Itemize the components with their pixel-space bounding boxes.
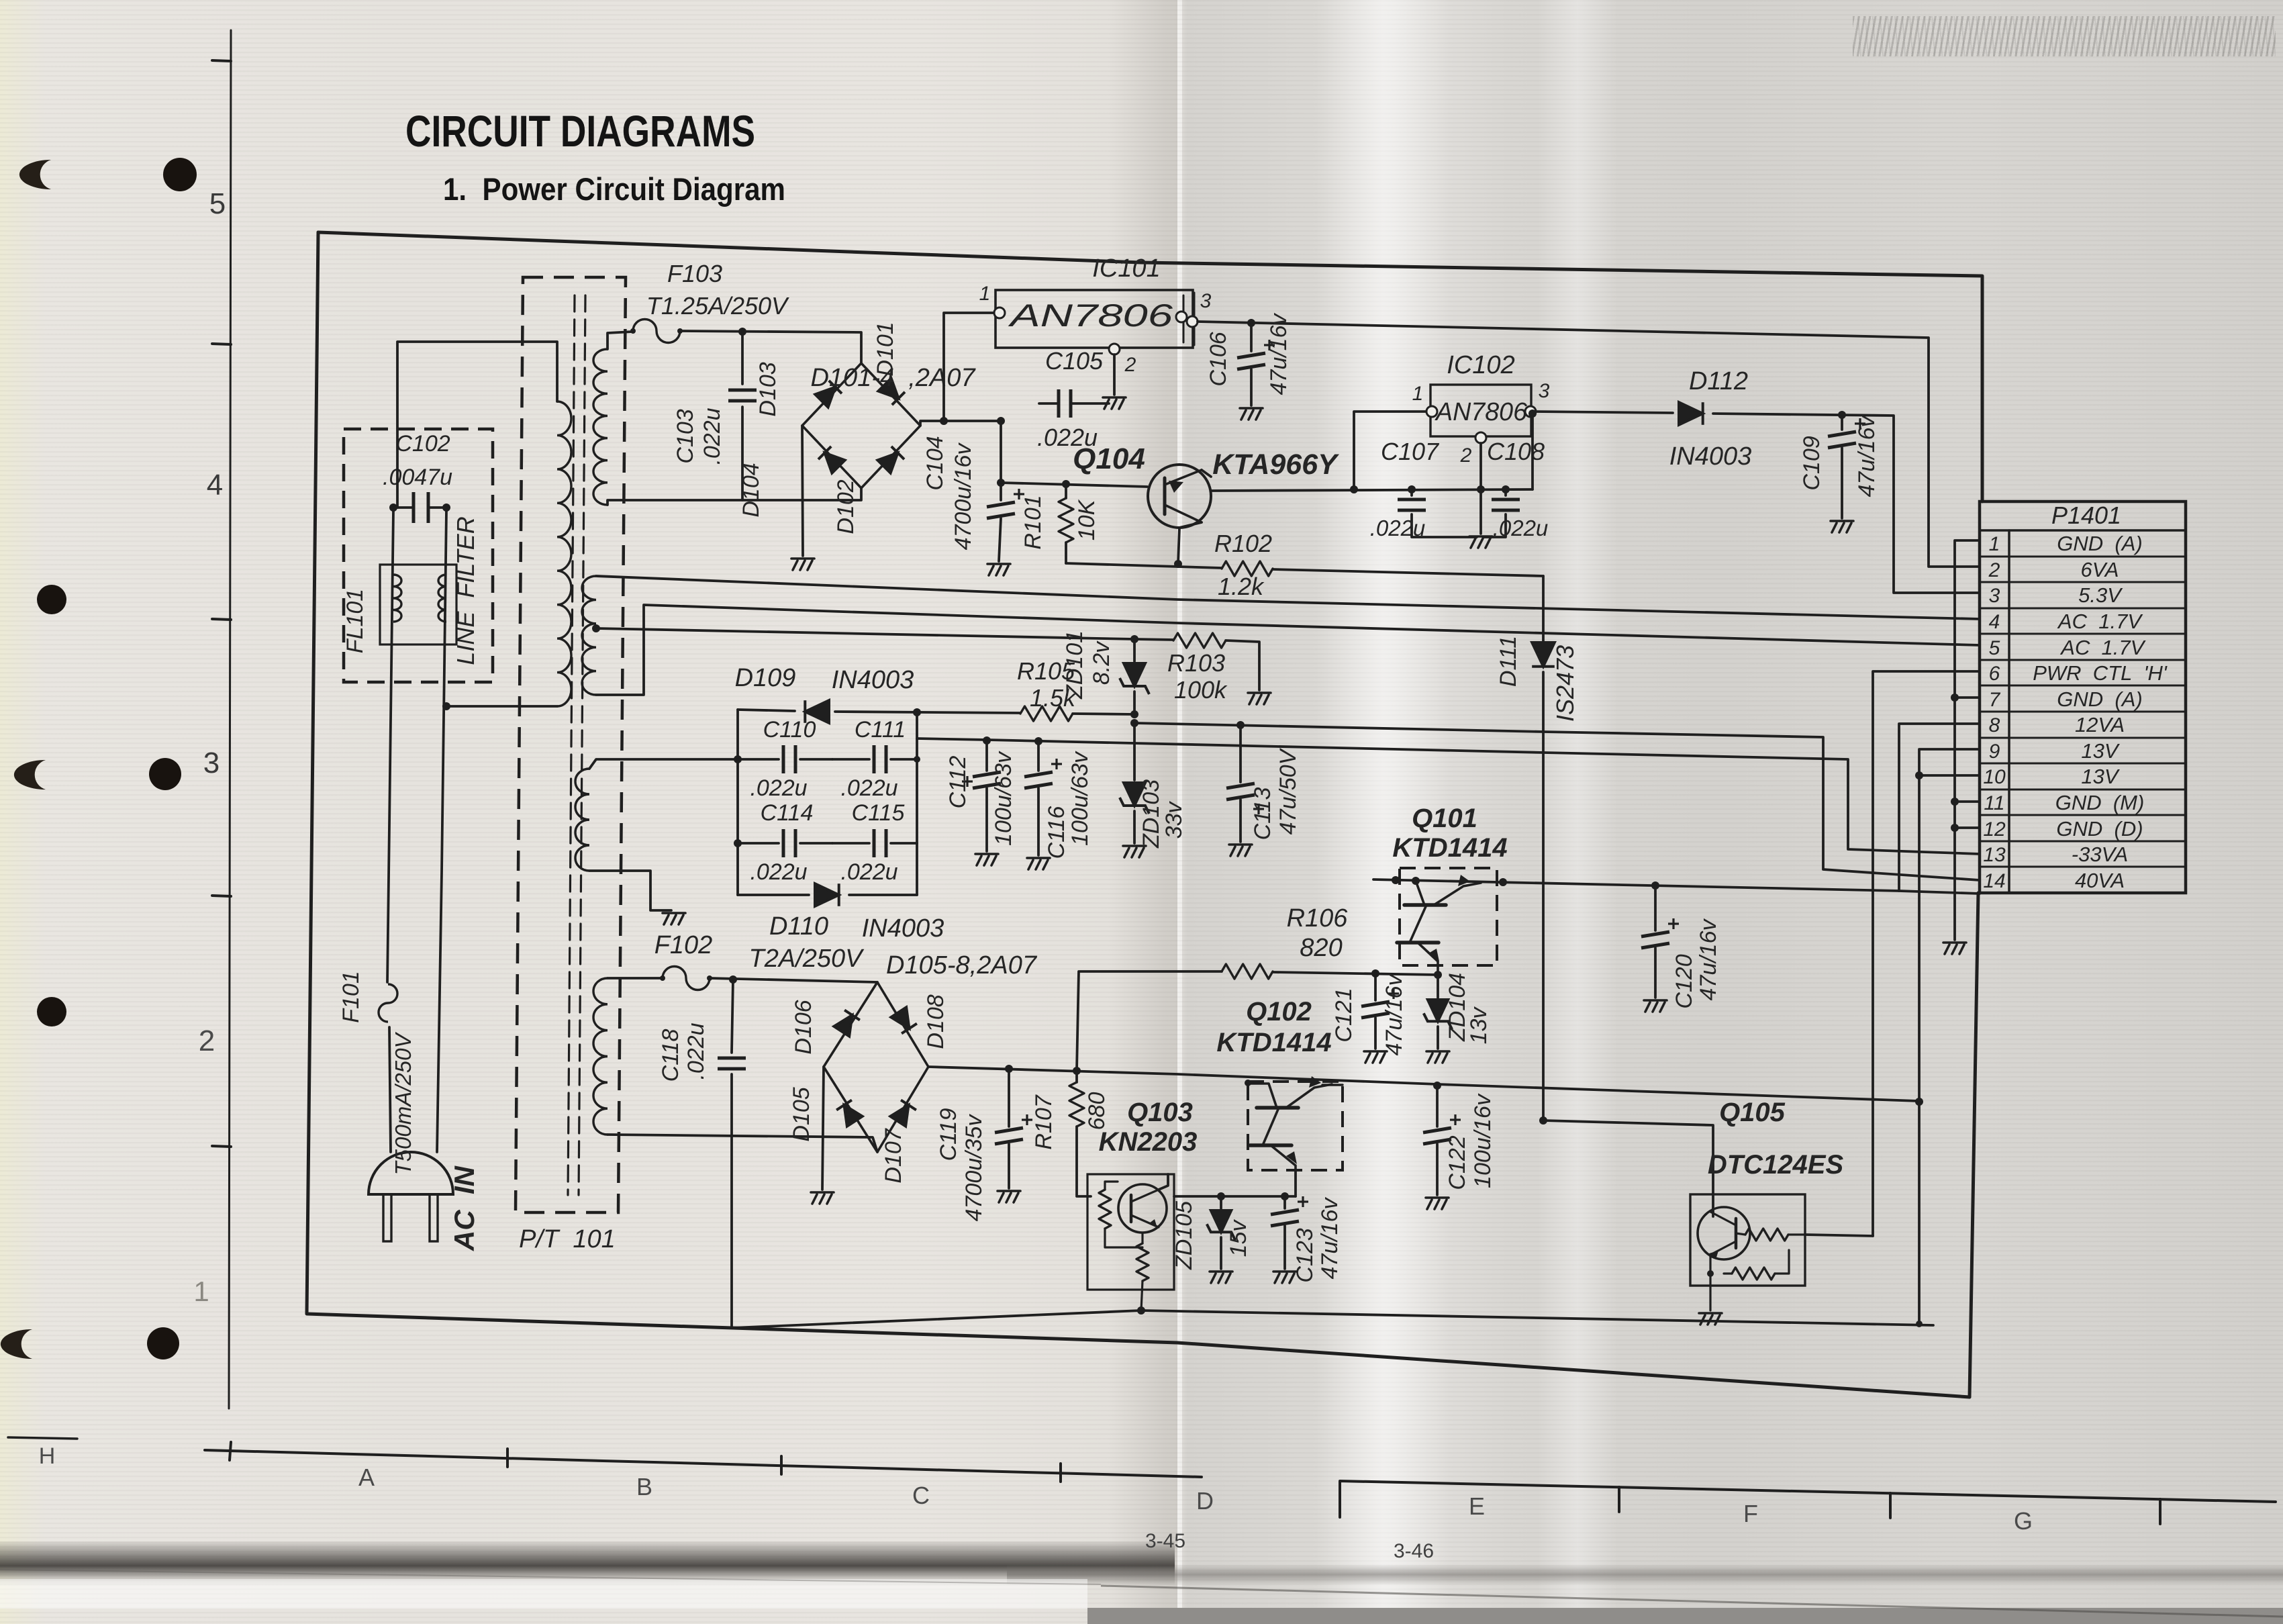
P1401 row line 5	[1980, 659, 2186, 661]
P1401 row line 11	[1980, 814, 2186, 816]
node ZD105	[1217, 1192, 1225, 1200]
bottom ruler tick C	[780, 1456, 783, 1474]
node -33VA branch	[1130, 719, 1138, 727]
node R107 top	[1073, 1067, 1081, 1075]
ground C123	[1273, 1272, 1296, 1283]
bottom ruler tick G	[1889, 1493, 1892, 1518]
wire AC right prong up	[437, 510, 446, 1152]
node 13V rail joint	[1915, 1098, 1923, 1106]
line filter block	[380, 565, 456, 644]
wire Q105 emitter to ground	[1709, 1255, 1711, 1310]
capacitor C111	[832, 758, 869, 761]
zener ZD105 15v	[1220, 1196, 1222, 1208]
IC101 pin3 lead bracket	[1183, 295, 1185, 342]
wire AC left prong to fuse F101	[389, 1027, 391, 1152]
diode D112	[1679, 402, 1703, 425]
wire bridge right vertex to C104 node	[920, 421, 1001, 426]
secondary winding W5 main	[593, 978, 608, 1135]
transistor Q105 circle	[1698, 1207, 1750, 1259]
capacitor C102	[393, 506, 414, 509]
diode D105 lower-left	[836, 1100, 863, 1127]
diode D106 upper-left	[834, 1010, 860, 1037]
resistor R105	[1020, 706, 1073, 721]
wire F101 up to C102 node	[387, 510, 393, 982]
cap network left rail	[736, 710, 739, 895]
capacitor C123 47u	[1283, 1196, 1286, 1208]
wire W5 top to fuse F102	[608, 977, 663, 980]
node Q104 base branch	[997, 479, 1005, 487]
node gnd bus pin7	[1951, 694, 1959, 702]
capacitor C112 100u	[985, 741, 988, 771]
P1401 row line 7	[1980, 711, 2186, 713]
node R101 top	[1062, 480, 1070, 488]
capacitor C122 100u	[1436, 1086, 1439, 1127]
P1401 pin number column line	[2008, 530, 2010, 893]
wire Q104 emitter down	[1178, 522, 1202, 564]
ground C106	[1240, 408, 1263, 420]
capacitor C105	[1039, 402, 1059, 405]
Q102 darlington symbol	[1248, 1084, 1277, 1108]
bottom ruler tick F	[1618, 1487, 1620, 1512]
wire ZD105 rail	[1174, 1195, 1296, 1198]
IC101 pin3 circle	[1176, 312, 1187, 322]
diode D101 upper-right	[878, 378, 905, 405]
capacitor C118	[732, 980, 733, 1053]
ground C121	[1364, 1051, 1387, 1063]
ground IC102 pin2	[1469, 536, 1492, 548]
node IC101 input branch	[940, 417, 948, 425]
ground R103	[1248, 693, 1271, 704]
wire bridge left vertex to ground	[802, 426, 803, 556]
connector P1401 outer box	[1980, 501, 2186, 893]
P1401 row line 13	[1980, 866, 2186, 868]
node Q102 base rail	[1245, 1080, 1251, 1086]
node pin2 crossing emitter rail	[1477, 485, 1485, 493]
node W3 mid tap	[592, 624, 600, 632]
wire IC102 pin3 to D112	[1533, 412, 1673, 413]
diode D102 lower-right	[877, 446, 904, 473]
IC101 pin2 circle	[1109, 344, 1120, 354]
ruler tick y1335	[212, 896, 231, 896]
capacitor C121 47u	[1374, 973, 1377, 1000]
wire AC1.7V line to pin5	[596, 605, 1980, 695]
ground C109	[1831, 521, 1853, 532]
ground connector bus	[1943, 943, 1966, 954]
transistor Q105 DTC124ES box	[1690, 1194, 1805, 1286]
IC102 pin1 circle	[1426, 406, 1437, 417]
wire W2 top to fuse F103	[608, 332, 632, 349]
bottom ruler tick at margin	[230, 1442, 231, 1460]
wire Q102 collector down	[1294, 1170, 1297, 1196]
IC101 box	[995, 290, 1193, 348]
wire pin12 stub	[1955, 826, 1980, 829]
node C102 right	[442, 504, 450, 512]
wire W2 bottom to bridge bottom	[608, 488, 861, 505]
wire Q104 collector right	[1202, 470, 1211, 477]
capacitor C120 47u	[1654, 886, 1657, 930]
AC plug prong left	[383, 1194, 391, 1241]
P1401 row line 9	[1980, 763, 2186, 765]
zener ZD103 33v	[1133, 723, 1136, 780]
wire Q103 collector to ZD105 rail	[1159, 1174, 1168, 1190]
diode D104 lower-left	[818, 446, 845, 473]
wire emitter rail up to pin3 line	[1531, 414, 1534, 489]
capacitor C106	[1250, 323, 1253, 351]
node C103 top	[738, 328, 746, 336]
transistor Q103 KN2203 box	[1087, 1174, 1174, 1290]
wire D112 to C109 node and corner to pin3	[1713, 414, 1980, 593]
Q101 darlington symbol	[1416, 881, 1424, 905]
P1401 row line 2	[1980, 581, 2186, 583]
wire D111 vertical from R102	[1542, 576, 1545, 641]
wire Q102 emitter to rail	[1322, 1084, 1343, 1086]
node Q105 emitter	[1707, 1270, 1714, 1277]
node pin10	[1915, 771, 1923, 779]
zener ZD101 8.2v	[1133, 639, 1136, 661]
node Q104 emitter R102	[1174, 560, 1182, 568]
bridge rectifier D105-8 diamond	[824, 982, 928, 1152]
secondary winding W2 6V	[593, 349, 608, 505]
node gnd bus pin12	[1951, 824, 1959, 832]
Q103 emitter resistor	[1141, 1233, 1143, 1243]
ground C120	[1644, 1000, 1667, 1012]
connector ground bus	[1955, 540, 1980, 940]
IC102 pin3 circle	[1525, 406, 1536, 417]
wire D109 to R105	[835, 712, 1020, 713]
Q105 emitter resistor	[1732, 1268, 1775, 1280]
border right edge below connector	[1970, 893, 1978, 1397]
wire C102 node to primary top	[397, 342, 557, 508]
ground C113	[1229, 845, 1252, 856]
primary winding W1	[557, 401, 571, 706]
IC102 box	[1430, 385, 1531, 436]
capacitor C114	[738, 842, 779, 845]
bottom ruler tick end	[2159, 1499, 2161, 1524]
wire F103 to bridge top	[681, 331, 861, 363]
resistor R106	[1222, 964, 1273, 979]
node Q101 base a	[1392, 876, 1400, 884]
ground ZD105	[1210, 1272, 1232, 1283]
resistor R101	[1065, 484, 1067, 498]
wire IC102 pin1 branch	[1354, 412, 1428, 489]
punch hole crescent row5	[1, 1329, 32, 1359]
node C118 top	[729, 975, 737, 984]
IC102 pin2 circle	[1475, 432, 1486, 443]
transformer core line 1	[568, 295, 575, 1195]
secondary winding W4 33V	[575, 769, 589, 871]
secondary winding W3 AC1.7V	[582, 576, 596, 695]
transistor Q101 KTD1414 dashed box	[1400, 868, 1497, 965]
fuse F101	[379, 984, 397, 1022]
wire C120 rail into connector	[1899, 891, 1980, 894]
wire primary bottom to AC right wire	[446, 705, 557, 708]
punch hole crescent row3	[14, 760, 46, 790]
P1401 row line 8	[1980, 737, 2186, 739]
node left rail top tap	[734, 755, 742, 763]
node C110 C111 mid	[914, 756, 920, 763]
punch hole row5	[147, 1327, 179, 1359]
P1401 row line 4	[1980, 633, 2186, 635]
node C108 top	[1502, 485, 1510, 493]
schematic outer border	[318, 232, 1982, 501]
AC plug prong right	[430, 1194, 438, 1241]
ground bridge1	[791, 559, 814, 570]
diode D111 IS2473	[1532, 642, 1555, 667]
wire R101 bottom to R102	[1066, 563, 1222, 568]
ground C116	[1027, 858, 1050, 869]
capacitor C109	[1841, 415, 1843, 430]
wire to Q105 collector	[1543, 1120, 1713, 1216]
node pin3 5.3V	[1528, 410, 1537, 418]
node C109	[1838, 411, 1846, 419]
node D111 bottom	[1539, 1116, 1547, 1125]
wire Q105 base to PWR CTL	[1805, 1235, 1873, 1236]
wire AC1.7V line to pin4	[596, 576, 1980, 619]
node C116 top	[1034, 737, 1042, 745]
node ZD101 top	[1130, 635, 1138, 643]
wire Q104 base	[1001, 483, 1147, 487]
P1401 row line 12	[1980, 841, 2186, 843]
resistor R103 to ground	[1134, 639, 1173, 640]
fuse F103	[633, 320, 680, 343]
capacitor C104 4700u	[1000, 421, 1002, 500]
node ZD101 bottom	[1130, 710, 1138, 718]
H margin mark line	[8, 1437, 77, 1439]
wire IC102 pin2 down to ground	[1479, 443, 1482, 534]
fuse F102	[663, 967, 710, 990]
wire pin11 stub	[1955, 800, 1980, 803]
wire up to IC101 pin1	[944, 313, 993, 421]
node C112 top	[983, 736, 991, 745]
zener ZD104 13v	[1437, 975, 1439, 998]
node C102 left	[389, 504, 397, 512]
capacitor C116 100u	[1037, 741, 1040, 771]
resistor R102	[1222, 561, 1273, 576]
cap network right rail	[916, 712, 918, 895]
wire bottom rail 13V	[732, 1310, 1933, 1328]
wire bridge2 output rail	[928, 1067, 1918, 1101]
node ZD104 emitter junction	[1434, 971, 1442, 979]
capacitor C107	[1410, 489, 1413, 495]
ground ZD103	[1123, 846, 1146, 857]
node Q101 base b	[1412, 877, 1420, 885]
node C121	[1371, 969, 1379, 977]
Q105 base resistor	[1736, 1233, 1745, 1235]
ground C122	[1426, 1198, 1449, 1209]
node primary bottom	[442, 702, 450, 710]
node C123	[1281, 1192, 1289, 1200]
P1401 row line 1	[1980, 556, 2186, 558]
diode D110	[815, 883, 839, 906]
transformer P/T 101 dashed box	[516, 277, 626, 1212]
diode D107 lower-right	[890, 1100, 916, 1127]
line filter coil right	[438, 575, 446, 622]
resistor R107	[1075, 1071, 1078, 1082]
wire L6 to pin13	[917, 738, 1980, 854]
ground IC101 pin2	[1103, 397, 1126, 409]
node left rail mid tap	[734, 839, 742, 847]
capacitor C110	[738, 758, 779, 761]
ground C104	[987, 564, 1010, 575]
node 13V bottom joint	[1916, 1321, 1923, 1327]
P1401 row line 6	[1980, 685, 2186, 687]
wire D110 to right rail	[849, 894, 917, 896]
wire F102 to bridge2 top	[709, 978, 877, 982]
diode D103 upper-left	[815, 381, 842, 408]
wire D110 row	[738, 894, 809, 896]
transistor Q104 KTA966Y	[1148, 465, 1211, 528]
node Q101 emitter exit	[1499, 878, 1507, 886]
bottom ruler tick B	[506, 1449, 509, 1467]
left margin ruler line	[229, 30, 231, 1408]
P1401 header separator	[1980, 529, 2186, 532]
wire Q104 emitter rail	[1211, 489, 1533, 491]
transformer core line 2	[579, 295, 585, 1195]
ruler tick y923	[212, 619, 231, 620]
wire IC101 pin2 to ground	[1113, 354, 1116, 395]
capacitor C113 47u/50V	[1239, 725, 1242, 782]
node C104 top	[997, 417, 1005, 425]
node C120	[1651, 881, 1659, 890]
bottom ruler line left page	[205, 1450, 1202, 1477]
wire -33VA line L5	[1134, 723, 1980, 880]
ground C119	[998, 1191, 1020, 1202]
wire W4 top lead	[589, 759, 738, 769]
node C107 top	[1408, 485, 1416, 493]
wire 13V vertical to pins 9 10	[1919, 749, 1980, 1324]
bottom ruler tick D	[1059, 1464, 1062, 1482]
IC101 pin1 circle	[994, 307, 1005, 318]
node C119	[1005, 1065, 1013, 1073]
FL101 dashed box	[344, 429, 493, 682]
ruler tick y1708	[212, 1146, 231, 1147]
node C106	[1247, 319, 1255, 327]
capacitor C103	[741, 332, 744, 384]
P1401 row line 10	[1980, 789, 2186, 791]
bottom ruler line right page	[1340, 1481, 2276, 1517]
ruler tick y513	[212, 344, 231, 344]
capacitor C119 4700u	[1008, 1069, 1010, 1127]
wire Q101 base rail 12VA	[1373, 724, 1980, 891]
P1401 row line 3	[1980, 608, 2186, 610]
punch hole crescent row1	[19, 160, 51, 189]
punch hole row3	[149, 758, 181, 790]
node IC102 pin1 branch	[1350, 485, 1358, 493]
wire R106 rail from R107 junction	[1077, 971, 1222, 1071]
node C113 top	[1236, 721, 1245, 729]
wire 6VA from IC101 pin3	[1198, 322, 1980, 567]
diode D108 upper-right	[891, 1007, 917, 1033]
wire D109 line	[738, 710, 795, 711]
punch hole row2	[37, 585, 66, 614]
AC IN plug	[369, 1152, 453, 1194]
wire pin10 stub	[1919, 774, 1980, 777]
node gnd bus pin11	[1951, 798, 1959, 806]
ground W4	[663, 913, 685, 924]
line filter coil left	[393, 575, 401, 622]
punch hole row1	[163, 158, 197, 191]
ruler tick y92	[212, 60, 231, 61]
ground bridge2	[811, 1192, 834, 1204]
ground C112	[975, 854, 998, 865]
punch hole row4	[37, 997, 66, 1026]
bridge rectifier D101-4 diamond	[802, 363, 920, 488]
ground Q105	[1699, 1313, 1722, 1325]
ground ZD104	[1426, 1051, 1449, 1063]
node Q103 bottom	[1137, 1306, 1145, 1315]
wire bridge2 left vertex to ground	[822, 1067, 824, 1190]
wire mid tap to ZD101 node	[596, 628, 1134, 639]
node cap right rail top	[913, 708, 921, 716]
capacitor C108	[1504, 489, 1507, 495]
transistor Q103 circle	[1118, 1184, 1167, 1233]
node C122	[1433, 1082, 1441, 1090]
wire W5 bottom to bridge2	[608, 1135, 877, 1152]
wire PWR CTL vertical pin6	[1873, 671, 1980, 1236]
wire pin7 stub	[1955, 696, 1980, 699]
Q103 base resistor	[1099, 1190, 1111, 1229]
transistor Q102 KTD1414 dashed box	[1248, 1082, 1343, 1170]
capacitor C115	[832, 842, 869, 845]
wire W4 bottom to ground	[589, 871, 671, 910]
diode D109	[805, 700, 829, 723]
